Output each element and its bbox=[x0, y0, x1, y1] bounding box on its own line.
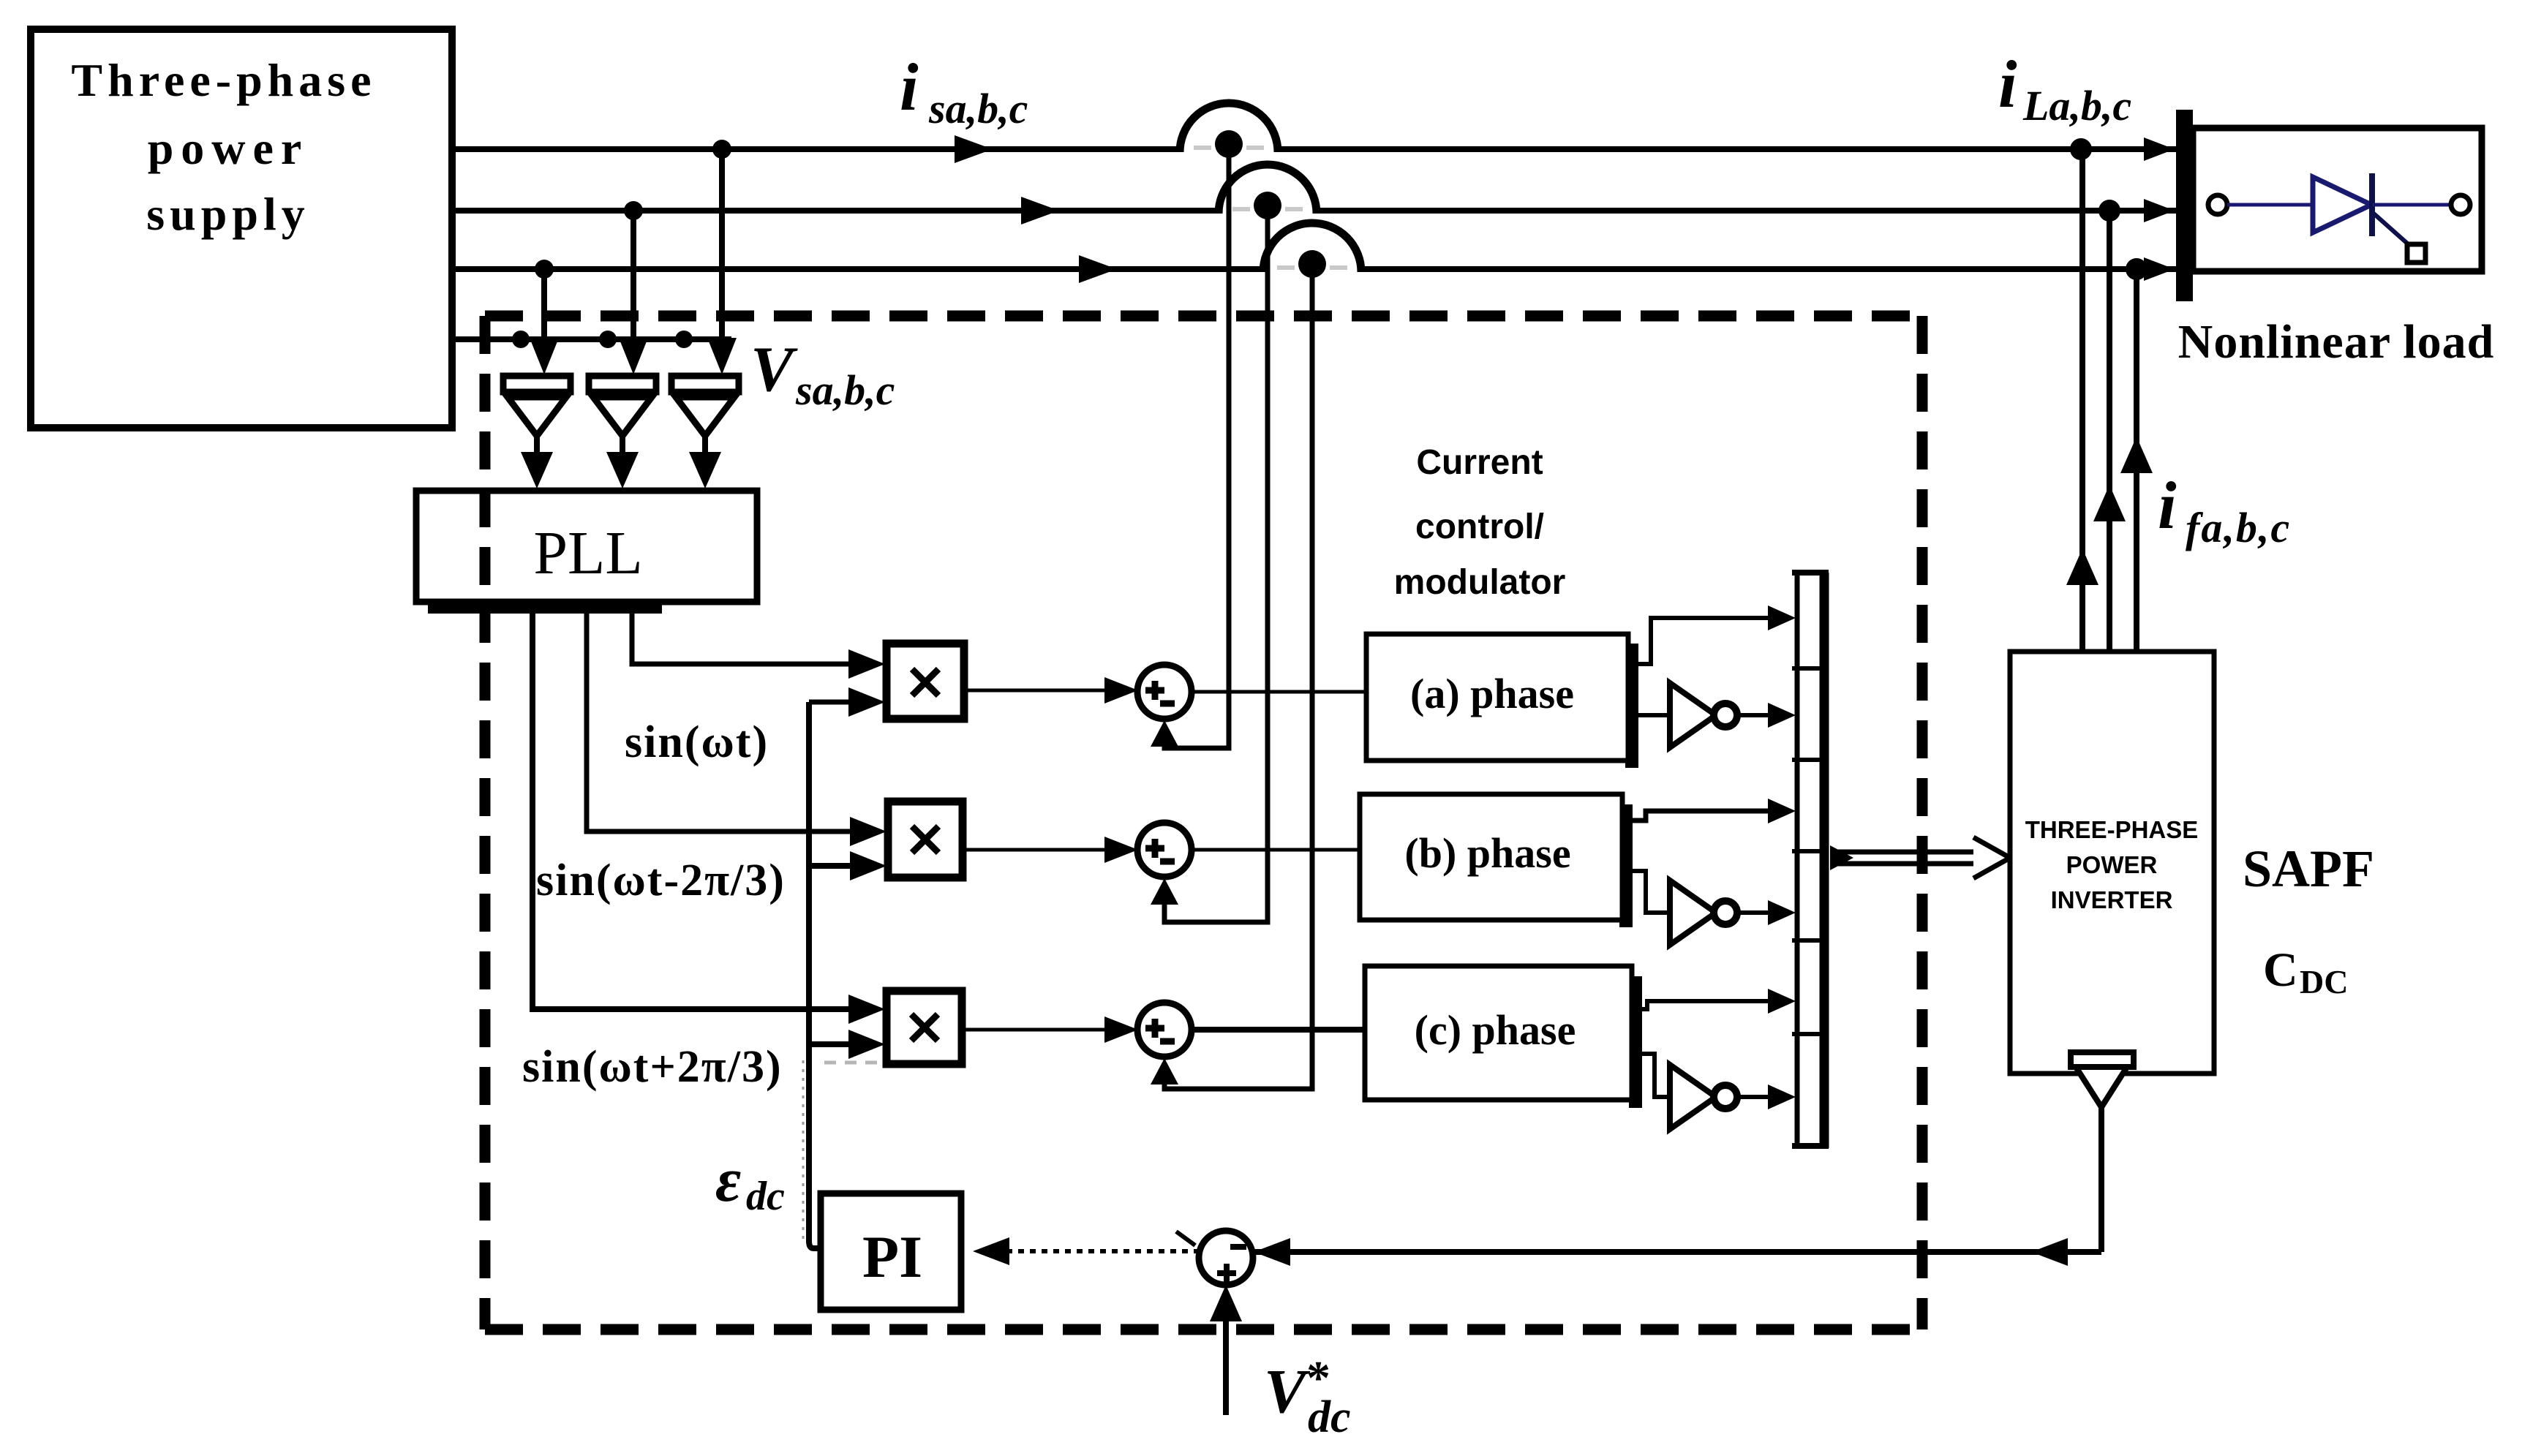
svg-text:V: V bbox=[1264, 1356, 1311, 1426]
svg-text:C: C bbox=[2263, 943, 2298, 997]
wire M3 output to summing node S3 bbox=[962, 1016, 1138, 1043]
three-phase power supply box bbox=[31, 29, 452, 428]
node phase A load tap bbox=[2070, 138, 2092, 160]
node on neutral line 1 bbox=[512, 331, 530, 348]
wire amplitude to M2 lower input bbox=[809, 851, 887, 880]
arrow phase A into load bus bbox=[2144, 137, 2175, 161]
wire filter current b bbox=[2093, 211, 2126, 652]
summing node S3 bbox=[1137, 1003, 1192, 1057]
controller block (a) phase bbox=[1366, 634, 1638, 768]
wire dc feedback to summing node V bbox=[1254, 1238, 2101, 1266]
svg-text:sa,b,c: sa,b,c bbox=[795, 366, 895, 414]
arrow on phase B bbox=[1021, 197, 1059, 225]
wire G1 output to PWM bus bbox=[1736, 703, 1796, 728]
svg-text:ε: ε bbox=[715, 1144, 741, 1215]
svg-text:PLL: PLL bbox=[533, 519, 642, 587]
svg-text:sin(ωt-2π/3): sin(ωt-2π/3) bbox=[536, 856, 786, 905]
wire (a) upper output to PWM bus bbox=[1637, 606, 1796, 664]
dc voltage sensor bbox=[2071, 1052, 2134, 1107]
svg-text:power: power bbox=[148, 122, 309, 174]
svg-text:sa,b,c: sa,b,c bbox=[928, 85, 1028, 132]
thyristor bbox=[2313, 173, 2372, 236]
wire phase B down to sensor 2 bbox=[619, 211, 648, 374]
amplitude bus from PI to multipliers bbox=[809, 702, 821, 1248]
wire amplitude to M3 lower input bbox=[809, 1030, 885, 1059]
wire (c) upper output to PWM bus bbox=[1641, 989, 1796, 1014]
wire G3 output to PWM bus bbox=[1736, 1085, 1796, 1109]
wire phase line C bbox=[452, 266, 2176, 272]
controller block (c) phase bbox=[1365, 966, 1642, 1108]
wire CT a measurement down to S1 bbox=[1151, 149, 1229, 748]
node on phase C to sensor bbox=[535, 260, 554, 279]
wire M2 output to summing node S2 bbox=[963, 837, 1138, 863]
thyristor right terminal bbox=[2451, 195, 2470, 214]
wire S1 to phase-a controller bbox=[1191, 690, 1366, 694]
svg-text:Three-phase: Three-phase bbox=[71, 54, 376, 106]
voltage sensor 1 bbox=[503, 376, 571, 489]
wire S3 to phase-c controller bbox=[1191, 1027, 1365, 1033]
logic inverter G2 bbox=[1670, 880, 1737, 945]
wire CT c measurement down to S3 bbox=[1151, 269, 1312, 1089]
thyristor anode wire bbox=[2227, 203, 2313, 207]
dotted companion line bbox=[802, 1060, 805, 1243]
arrow phase C into load bus bbox=[2144, 257, 2175, 281]
PWM combiner bus bar bbox=[1792, 573, 1829, 1148]
svg-text:sin(ωt+2π/3): sin(ωt+2π/3) bbox=[522, 1042, 783, 1092]
wire (a) lower output to inverter gate G1 bbox=[1637, 713, 1670, 717]
wire (b) upper output to PWM bus bbox=[1631, 799, 1796, 823]
svg-text:(b) phase: (b) phase bbox=[1404, 829, 1570, 877]
wire phase line B bbox=[452, 208, 2176, 214]
svg-text:i: i bbox=[900, 50, 919, 124]
wire (b) lower output to inverter gate G2 bbox=[1631, 871, 1670, 913]
svg-text:i: i bbox=[2158, 468, 2177, 543]
node phase B load tap bbox=[2098, 200, 2120, 222]
multiplier M2 bbox=[888, 801, 963, 878]
wire filter current a bbox=[2066, 149, 2098, 652]
svg-text:fa,b,c: fa,b,c bbox=[2186, 504, 2291, 551]
wire G2 output to PWM bus bbox=[1736, 900, 1796, 925]
wire neutral tap line bbox=[452, 336, 731, 342]
nonlinear load box bbox=[2193, 128, 2482, 271]
wire V*dc reference up into summing node bbox=[1210, 1285, 1242, 1415]
svg-text:dc: dc bbox=[1308, 1392, 1351, 1442]
summing node S1 bbox=[1137, 665, 1192, 719]
svg-text:PI: PI bbox=[862, 1223, 922, 1290]
double arrow PWM bus to inverter bbox=[1830, 837, 2010, 878]
svg-text:THREE-PHASE: THREE-PHASE bbox=[2025, 816, 2199, 843]
dashed control boundary box bbox=[485, 316, 1922, 1329]
svg-text:(c) phase: (c) phase bbox=[1415, 1006, 1576, 1054]
svg-text:supply: supply bbox=[146, 188, 309, 240]
svg-text:DC: DC bbox=[2300, 963, 2348, 1000]
svg-text:dc: dc bbox=[746, 1174, 785, 1219]
multiplier M1 bbox=[887, 644, 964, 719]
thyristor gate terminal bbox=[2407, 244, 2425, 263]
wire phase C down to sensor 1 bbox=[530, 269, 559, 374]
svg-text:i: i bbox=[1998, 47, 2017, 121]
thyristor gate wire bbox=[2372, 212, 2412, 247]
dotted wire summing node V to PI bbox=[973, 1237, 1200, 1265]
svg-text:Nonlinear load: Nonlinear load bbox=[2178, 315, 2495, 369]
label V*_dc bbox=[1264, 1351, 1351, 1442]
current transformer CT c bbox=[1263, 223, 1361, 278]
wire filter current c bbox=[2120, 269, 2153, 652]
three-phase power inverter block bbox=[2010, 652, 2214, 1074]
svg-text:Current: Current bbox=[1416, 443, 1543, 482]
controller block (b) phase bbox=[1360, 794, 1633, 927]
current transformer CT b bbox=[1219, 165, 1317, 219]
svg-text:modulator: modulator bbox=[1394, 563, 1566, 602]
logic inverter G1 bbox=[1670, 683, 1737, 747]
wire phase line A bbox=[452, 146, 2176, 152]
wire PLL output 2 to multiplier M2 bbox=[587, 602, 887, 846]
multiplier M3 bbox=[887, 991, 962, 1064]
summing node S2 bbox=[1137, 823, 1192, 877]
arrow on phase A bbox=[955, 135, 993, 163]
thyristor cathode wire bbox=[2372, 203, 2451, 207]
wire CT b measurement down to S2 bbox=[1151, 211, 1268, 922]
node on neutral line 2 bbox=[599, 331, 617, 348]
voltage sensor 3 bbox=[671, 376, 739, 489]
wire dc sensor down bbox=[2098, 1107, 2104, 1252]
load input bus bar bbox=[2176, 110, 2193, 301]
svg-text:control/: control/ bbox=[1415, 508, 1544, 546]
svg-text:sin(ωt): sin(ωt) bbox=[625, 717, 769, 767]
wire (c) lower output to inverter gate G3 bbox=[1641, 1054, 1670, 1097]
wire S2 to phase-b controller bbox=[1191, 848, 1360, 852]
PLL block bbox=[416, 491, 757, 614]
svg-text:(a) phase: (a) phase bbox=[1410, 670, 1574, 717]
node on neutral line 3 bbox=[675, 331, 693, 348]
svg-text:V: V bbox=[750, 334, 798, 405]
svg-text:POWER: POWER bbox=[2066, 851, 2158, 878]
PI controller block bbox=[821, 1193, 961, 1310]
thyristor left terminal bbox=[2208, 195, 2227, 214]
node on phase B to sensor bbox=[624, 201, 643, 220]
svg-text:La,b,c: La,b,c bbox=[2022, 82, 2131, 129]
svg-text:SAPF: SAPF bbox=[2243, 840, 2374, 898]
svg-text:INVERTER: INVERTER bbox=[2051, 886, 2173, 913]
current transformer CT a bbox=[1180, 103, 1278, 158]
summing node V for dc voltage bbox=[1176, 1231, 1253, 1285]
node phase C load tap bbox=[2126, 258, 2148, 280]
logic inverter G3 bbox=[1670, 1065, 1737, 1129]
wire PLL output 3 to multiplier M3 bbox=[532, 602, 885, 1024]
wire phase A down to sensor 3 bbox=[707, 149, 737, 374]
voltage sensor 2 bbox=[589, 376, 656, 489]
arrow phase B into load bus bbox=[2144, 199, 2175, 222]
faint dashed fragment near M3 bbox=[824, 1061, 881, 1065]
wire M1 output to summing node S1 bbox=[964, 677, 1138, 704]
label current control / modulator bbox=[1394, 443, 1566, 602]
node on phase A to sensor bbox=[712, 140, 731, 159]
wire PLL output 1 to multiplier M1 bbox=[632, 602, 885, 679]
arrow on phase C bbox=[1079, 255, 1117, 283]
wire amplitude to M1 lower input bbox=[809, 687, 885, 717]
